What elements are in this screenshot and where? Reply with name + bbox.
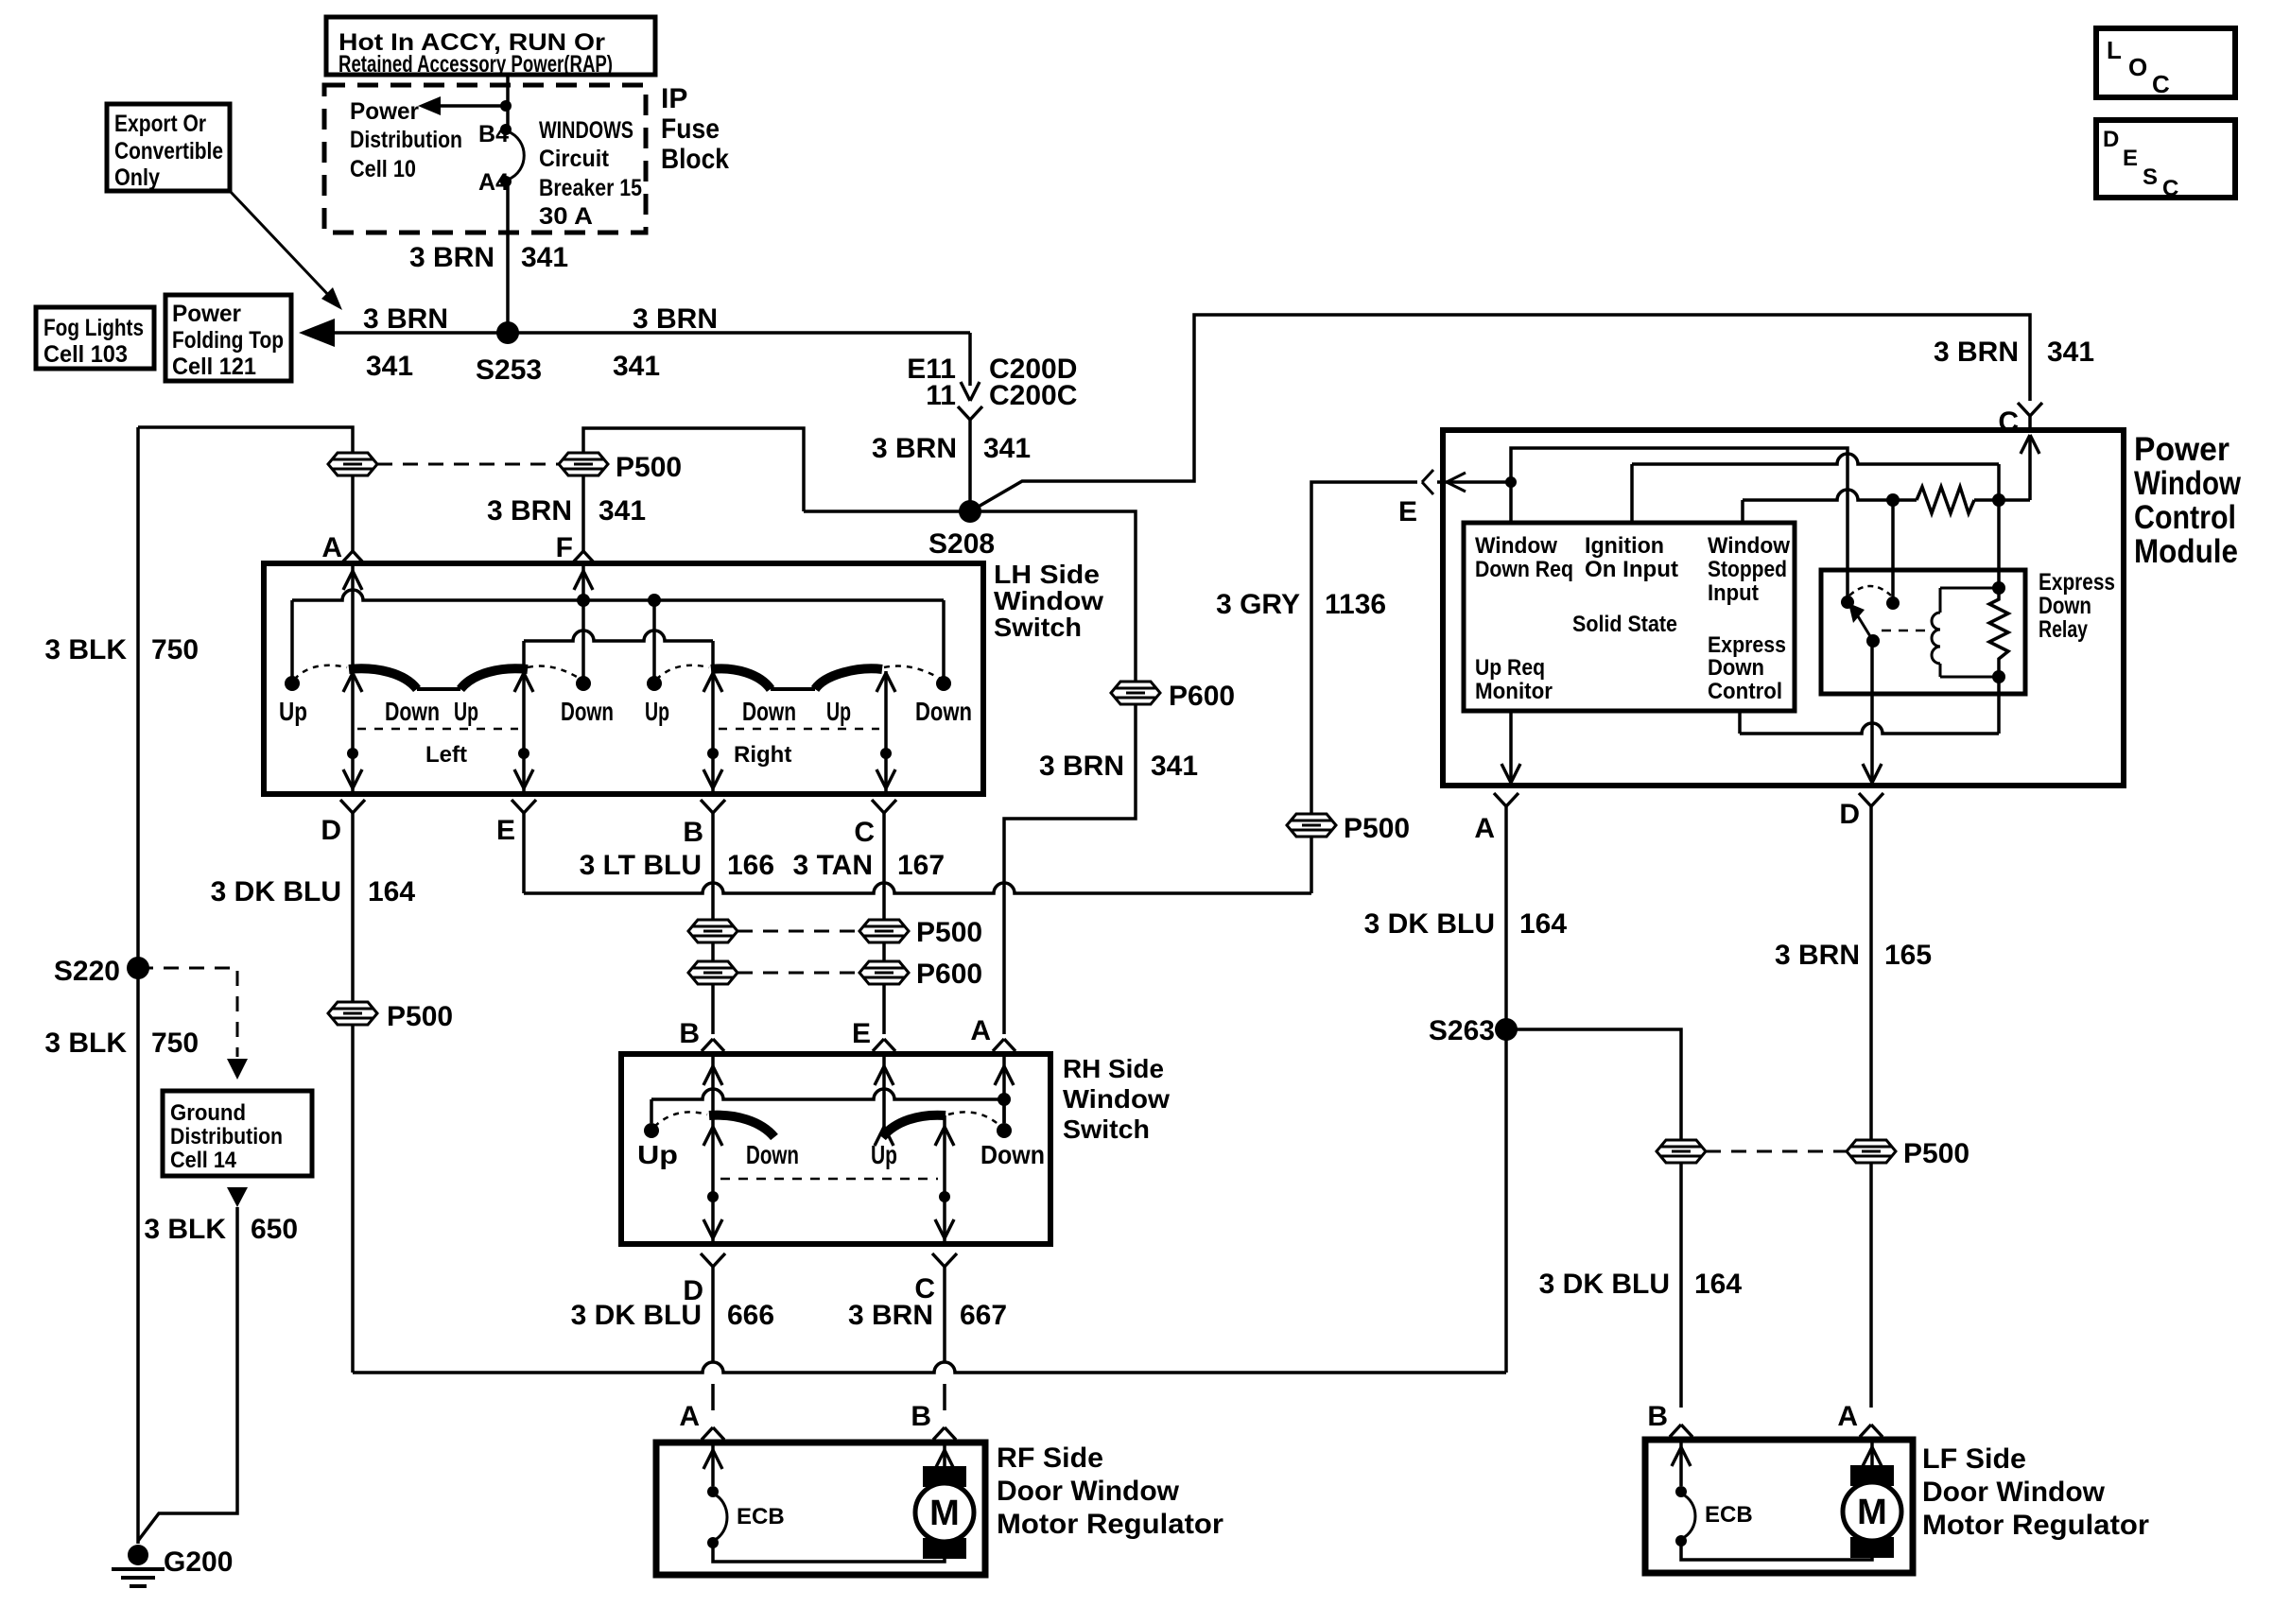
svg-text:Cell 103: Cell 103 bbox=[43, 341, 128, 368]
wire D to RF motor (3 DK BLU 666) bbox=[711, 1267, 715, 1363]
LF motor ECB breaker bbox=[1672, 1447, 1681, 1466]
svg-text:3 BRN: 3 BRN bbox=[848, 1300, 933, 1331]
svg-text:C200C: C200C bbox=[989, 380, 1077, 411]
svg-text:750: 750 bbox=[151, 634, 199, 665]
svg-text:Control: Control bbox=[2134, 499, 2236, 536]
splice S208 bbox=[959, 500, 981, 523]
svg-text:164: 164 bbox=[368, 876, 415, 907]
svg-text:G200: G200 bbox=[164, 1546, 233, 1578]
svg-text:3 BRN: 3 BRN bbox=[1934, 337, 2019, 368]
svg-text:Down: Down bbox=[561, 697, 614, 726]
svg-text:667: 667 bbox=[960, 1300, 1007, 1331]
svg-text:Convertible: Convertible bbox=[114, 138, 223, 164]
relay switch arm bbox=[1855, 612, 1873, 641]
RH switch C connector bbox=[932, 1253, 945, 1267]
svg-text:Breaker 15: Breaker 15 bbox=[539, 175, 642, 201]
wire P600 to RH switch A bbox=[1004, 704, 1136, 1034]
module C input wire bbox=[2028, 437, 2032, 500]
power source label box (Hot In ACCY) bbox=[326, 17, 655, 75]
RH switch right rocker bbox=[882, 1115, 946, 1137]
connector P600 pair mid bbox=[688, 961, 737, 984]
LH switch up contact (right window) bbox=[652, 600, 656, 677]
svg-text:P500: P500 bbox=[1344, 813, 1410, 844]
LH switch C riser bbox=[884, 671, 888, 794]
LH switch F riser bbox=[581, 563, 585, 677]
svg-text:Solid State: Solid State bbox=[1572, 612, 1677, 637]
svg-text:P600: P600 bbox=[916, 959, 982, 990]
svg-text:A: A bbox=[970, 1015, 991, 1046]
svg-text:30 A: 30 A bbox=[539, 203, 593, 230]
svg-text:Up: Up bbox=[279, 697, 307, 726]
wire window stopped input rail bbox=[1741, 500, 1744, 523]
svg-text:164: 164 bbox=[1694, 1269, 1742, 1300]
svg-text:341: 341 bbox=[613, 351, 660, 382]
wire F feed drop bbox=[583, 428, 804, 511]
RH switch up contact bbox=[650, 1099, 653, 1123]
svg-text:Power: Power bbox=[172, 301, 241, 327]
wire S208 rail to F drop bbox=[804, 510, 1134, 513]
connector P600 (BRN to RH switch) bbox=[1111, 682, 1160, 704]
connector half at module C bbox=[2018, 403, 2030, 416]
svg-text:B: B bbox=[1647, 1401, 1668, 1432]
LH switch down contact (right window) bbox=[942, 600, 946, 677]
svg-text:Switch: Switch bbox=[994, 613, 1082, 642]
svg-text:P500: P500 bbox=[616, 452, 682, 483]
svg-text:Relay: Relay bbox=[2039, 616, 2088, 643]
svg-text:3 BRN: 3 BRN bbox=[409, 242, 495, 273]
svg-text:341: 341 bbox=[1151, 751, 1198, 782]
svg-text:B: B bbox=[679, 1018, 700, 1049]
svg-text:Down: Down bbox=[2039, 593, 2091, 619]
svg-text:LH Side: LH Side bbox=[994, 560, 1100, 589]
svg-text:3 BRN: 3 BRN bbox=[1775, 940, 1860, 971]
svg-text:Up: Up bbox=[454, 697, 478, 726]
svg-text:On Input: On Input bbox=[1585, 557, 1678, 582]
svg-text:Monitor: Monitor bbox=[1475, 679, 1553, 704]
svg-text:Fuse: Fuse bbox=[661, 113, 720, 145]
svg-text:S253: S253 bbox=[476, 354, 542, 386]
svg-text:P500: P500 bbox=[1903, 1138, 1969, 1169]
svg-text:P500: P500 bbox=[916, 917, 982, 948]
svg-text:P500: P500 bbox=[387, 1001, 453, 1032]
svg-text:3 DK BLU: 3 DK BLU bbox=[571, 1300, 702, 1331]
svg-text:Cell 14: Cell 14 bbox=[170, 1148, 237, 1173]
wire D (3 DK BLU 164) lower bbox=[351, 1025, 355, 1373]
Export Or Convertible Only note box bbox=[107, 104, 230, 191]
ground G200 bbox=[128, 1545, 148, 1565]
svg-text:Folding Top: Folding Top bbox=[172, 327, 284, 354]
svg-text:3 LT BLU: 3 LT BLU bbox=[580, 850, 702, 881]
svg-text:Express: Express bbox=[1708, 632, 1786, 658]
svg-text:E: E bbox=[1398, 496, 1417, 527]
svg-text:3 DK BLU: 3 DK BLU bbox=[1539, 1269, 1670, 1300]
RH switch gang dashed line bbox=[720, 1178, 938, 1181]
svg-text:Up: Up bbox=[637, 1140, 678, 1169]
connector P500 on LF B wire bbox=[1657, 1140, 1706, 1163]
RH switch dashed contact arcs bbox=[654, 1112, 707, 1127]
svg-text:Up: Up bbox=[645, 697, 669, 726]
IP fuse block dashed box bbox=[324, 85, 646, 233]
LH switch C connector bbox=[872, 800, 884, 813]
svg-text:650: 650 bbox=[251, 1214, 298, 1245]
relay resistor bbox=[1989, 588, 2008, 677]
module A connector bbox=[1494, 793, 1506, 806]
svg-text:3 DK BLU: 3 DK BLU bbox=[1364, 908, 1495, 940]
wire express down control to coil bbox=[1738, 711, 1742, 734]
svg-text:Stopped: Stopped bbox=[1708, 557, 1787, 582]
connector P500 (feed drop) bbox=[559, 453, 608, 475]
svg-text:750: 750 bbox=[151, 1028, 199, 1059]
svg-text:341: 341 bbox=[521, 242, 568, 273]
svg-text:Window: Window bbox=[2134, 465, 2242, 502]
svg-text:Up: Up bbox=[826, 697, 851, 726]
svg-text:Down: Down bbox=[746, 1140, 799, 1169]
svg-text:D: D bbox=[2103, 127, 2119, 152]
svg-text:LF Side: LF Side bbox=[1922, 1443, 2026, 1475]
svg-text:D: D bbox=[1839, 799, 1860, 830]
svg-text:164: 164 bbox=[1519, 908, 1567, 940]
RF motor ECB breaker bbox=[703, 1450, 713, 1469]
wire C to RF motor (3 BRN 667) bbox=[943, 1267, 946, 1363]
relay contact dashed arc bbox=[1849, 586, 1891, 596]
RH Side Window Switch box bbox=[621, 1054, 1050, 1244]
svg-text:Control: Control bbox=[1708, 679, 1782, 704]
svg-text:C: C bbox=[1998, 406, 2019, 438]
Ground Distribution Cell 14 box bbox=[163, 1091, 312, 1176]
svg-text:S263: S263 bbox=[1429, 1015, 1495, 1046]
RF motor M1 bbox=[935, 1450, 945, 1469]
svg-text:341: 341 bbox=[983, 433, 1031, 464]
svg-text:Window: Window bbox=[1063, 1084, 1170, 1114]
svg-text:1136: 1136 bbox=[1325, 589, 1386, 620]
wire B (3 LT BLU 166) bbox=[711, 813, 715, 920]
Power Folding Top Cell 121 box bbox=[165, 295, 291, 381]
svg-text:Down: Down bbox=[915, 697, 972, 726]
RF Side Door Window Motor Regulator box bbox=[656, 1443, 985, 1575]
dashed link S220 to ground distribution bbox=[138, 968, 237, 1057]
splice S263 bbox=[1495, 1018, 1518, 1041]
svg-text:Power: Power bbox=[2134, 431, 2230, 468]
LH switch right window rocker bbox=[711, 668, 771, 689]
ground wire 3 BLK 750 vertical bbox=[136, 427, 140, 1544]
circuit breaker 15 element bbox=[500, 124, 512, 135]
svg-text:IP: IP bbox=[661, 83, 687, 114]
svg-text:S220: S220 bbox=[54, 956, 120, 987]
RH switch left rocker bbox=[709, 1115, 774, 1137]
hot feed rail wire 3 BRN 341 bbox=[321, 331, 970, 335]
svg-text:341: 341 bbox=[2047, 337, 2094, 368]
wire relay contact 2 drop bbox=[1891, 500, 1895, 599]
svg-text:Only: Only bbox=[114, 164, 160, 191]
svg-text:S: S bbox=[2143, 164, 2158, 190]
svg-text:Circuit: Circuit bbox=[539, 146, 610, 172]
connector half at module E bbox=[1422, 470, 1433, 482]
svg-text:Right: Right bbox=[734, 742, 791, 768]
module E input wire bbox=[1437, 480, 1511, 484]
svg-text:3 BRN: 3 BRN bbox=[633, 303, 718, 335]
wire window down req pin bbox=[1509, 482, 1513, 523]
svg-text:341: 341 bbox=[599, 495, 646, 527]
svg-text:Down: Down bbox=[980, 1140, 1045, 1169]
module solid state box bbox=[1464, 523, 1795, 711]
module D connector bbox=[1859, 793, 1871, 806]
svg-text:Retained Accessory Power(RAP): Retained Accessory Power(RAP) bbox=[338, 51, 613, 78]
svg-text:M: M bbox=[1857, 1493, 1887, 1532]
RH switch D connector bbox=[701, 1253, 713, 1267]
svg-text:166: 166 bbox=[727, 850, 774, 881]
relay mechanical dashed link bbox=[1882, 630, 1932, 632]
svg-text:Fog Lights: Fog Lights bbox=[43, 315, 144, 341]
wire fuse feed vertical bbox=[506, 75, 510, 130]
svg-text:3 BRN: 3 BRN bbox=[872, 433, 957, 464]
svg-text:Input: Input bbox=[1708, 580, 1759, 606]
svg-text:Down Req: Down Req bbox=[1475, 557, 1573, 582]
svg-text:341: 341 bbox=[366, 351, 413, 382]
svg-text:3 DK BLU: 3 DK BLU bbox=[211, 876, 341, 907]
wire E to module (3 LT BLU) bbox=[522, 813, 526, 893]
connector P500 pair mid bbox=[688, 920, 737, 942]
express down relay box bbox=[1821, 570, 2025, 694]
LH switch left window rocker bbox=[349, 668, 417, 689]
svg-text:Distribution: Distribution bbox=[350, 127, 462, 153]
RH switch B/D riser bbox=[711, 1054, 715, 1244]
relay coil bbox=[1940, 587, 1999, 590]
svg-text:RF Side: RF Side bbox=[997, 1443, 1103, 1474]
svg-text:C: C bbox=[2162, 176, 2178, 201]
svg-text:E: E bbox=[2123, 146, 2138, 171]
connector P500 (ground drop) bbox=[328, 453, 377, 475]
splice S220 bbox=[127, 957, 149, 979]
splice S253 bbox=[496, 321, 519, 344]
wire E to relay common bbox=[1511, 448, 1848, 598]
svg-text:Left: Left bbox=[425, 742, 467, 768]
LH switch A/D riser bbox=[351, 563, 355, 794]
svg-text:Window: Window bbox=[994, 586, 1103, 615]
LH switch dashed contact arcs bbox=[294, 665, 347, 680]
svg-text:3 BLK: 3 BLK bbox=[44, 1028, 127, 1059]
LH switch E riser bbox=[522, 641, 526, 794]
LOC legend box bbox=[2096, 28, 2235, 97]
connector P500 pair lower right bbox=[1847, 1140, 1896, 1163]
svg-text:S208: S208 bbox=[928, 528, 995, 560]
svg-text:E: E bbox=[496, 815, 515, 846]
wire ignition on input to resistor node bbox=[1630, 464, 1634, 523]
connector P500 on D wire bbox=[328, 1002, 377, 1025]
resistor (module) bbox=[1917, 487, 1974, 513]
svg-text:RH Side: RH Side bbox=[1063, 1054, 1164, 1083]
svg-text:Up Req: Up Req bbox=[1475, 655, 1545, 681]
wire 3 GRY 1136 riser bbox=[1310, 837, 1313, 893]
svg-text:Window: Window bbox=[1475, 533, 1557, 559]
svg-text:C: C bbox=[2152, 70, 2170, 98]
LF motor M2 bbox=[1863, 1447, 1872, 1466]
svg-text:Door Window: Door Window bbox=[1922, 1477, 2106, 1508]
svg-text:Motor Regulator: Motor Regulator bbox=[1922, 1510, 2149, 1541]
RH switch A riser bbox=[1002, 1054, 1006, 1123]
svg-text:666: 666 bbox=[727, 1300, 774, 1331]
svg-text:Express: Express bbox=[2039, 569, 2115, 596]
svg-text:F: F bbox=[556, 532, 573, 563]
svg-text:A: A bbox=[321, 532, 342, 563]
wire bus LH D to S263 bbox=[353, 1362, 1506, 1373]
svg-text:P600: P600 bbox=[1169, 681, 1235, 712]
svg-text:A: A bbox=[679, 1401, 700, 1432]
LH switch up contact (left window) bbox=[290, 600, 294, 677]
LH switch gang dashed lines bbox=[357, 728, 518, 731]
LH switch B connector bbox=[701, 800, 713, 813]
wire D (3 DK BLU 164) upper bbox=[351, 813, 355, 1002]
node branch to power distribution with arrow bbox=[500, 100, 512, 112]
svg-text:3 TAN: 3 TAN bbox=[793, 850, 873, 881]
svg-text:Export Or: Export Or bbox=[114, 111, 206, 137]
wire S263 branch to LF motor bbox=[1506, 1029, 1681, 1140]
svg-text:Down: Down bbox=[742, 697, 796, 726]
svg-text:Distribution: Distribution bbox=[170, 1124, 283, 1149]
svg-text:Cell 10: Cell 10 bbox=[350, 156, 416, 182]
svg-text:3 BRN: 3 BRN bbox=[1039, 751, 1124, 782]
svg-text:11: 11 bbox=[926, 380, 956, 411]
svg-text:B: B bbox=[683, 817, 703, 848]
svg-text:Ignition: Ignition bbox=[1585, 533, 1664, 559]
svg-text:E: E bbox=[852, 1018, 871, 1049]
LH switch B riser bbox=[711, 641, 715, 794]
LH switch down contact (left window) bbox=[576, 676, 591, 691]
wire A drop to LH switch bbox=[351, 475, 355, 551]
RH switch feed bus bbox=[651, 1089, 1004, 1099]
DESC legend box bbox=[2096, 120, 2235, 198]
wire top rail to LH switch A bbox=[138, 427, 353, 453]
relay contact nodes bbox=[1841, 596, 1854, 609]
connector P500 on GRY wire bbox=[1287, 814, 1336, 837]
RH switch C riser bbox=[943, 1115, 946, 1244]
wire C (3 TAN 167) bbox=[882, 813, 886, 920]
svg-text:165: 165 bbox=[1884, 940, 1932, 971]
svg-text:Up: Up bbox=[871, 1140, 897, 1169]
svg-text:3 BRN: 3 BRN bbox=[487, 495, 572, 527]
wire relay arm to D pin bbox=[1870, 641, 1874, 783]
svg-text:A: A bbox=[1474, 813, 1495, 844]
svg-text:Ground: Ground bbox=[170, 1100, 246, 1126]
wire up req monitor to A pin bbox=[1509, 711, 1513, 783]
svg-text:Block: Block bbox=[661, 144, 729, 175]
RH switch E riser bbox=[882, 1054, 886, 1127]
LH switch feed bus bbox=[292, 590, 944, 600]
LH Side Window Switch box bbox=[264, 563, 983, 794]
svg-text:Power: Power bbox=[350, 98, 419, 125]
LH switch E connector bbox=[512, 800, 524, 813]
svg-text:3 GRY: 3 GRY bbox=[1216, 589, 1300, 620]
svg-text:ECB: ECB bbox=[1705, 1502, 1753, 1528]
svg-text:D: D bbox=[321, 815, 341, 846]
dashed pair link P500 top bbox=[377, 463, 559, 466]
RF motor bottom wire bbox=[713, 1543, 945, 1562]
svg-text:O: O bbox=[2128, 53, 2147, 81]
svg-text:L: L bbox=[2107, 36, 2122, 64]
svg-text:M: M bbox=[929, 1494, 960, 1533]
svg-text:167: 167 bbox=[897, 850, 945, 881]
svg-text:ECB: ECB bbox=[737, 1504, 785, 1529]
LF motor bottom wire bbox=[1681, 1541, 1872, 1560]
svg-text:3 BLK: 3 BLK bbox=[144, 1214, 226, 1245]
LH switch D connector bbox=[340, 800, 353, 813]
RH switch down contact bbox=[1002, 1099, 1006, 1123]
svg-text:3 BRN: 3 BRN bbox=[363, 303, 448, 335]
connector C200 E11/11 bbox=[968, 333, 972, 386]
svg-text:Down: Down bbox=[1708, 655, 1764, 681]
wire module D to LF motor (3 BRN 165) bbox=[1869, 806, 1873, 1140]
svg-text:B: B bbox=[911, 1401, 931, 1432]
svg-text:Door Window: Door Window bbox=[997, 1476, 1180, 1507]
Fog Lights Cell 103 box bbox=[36, 307, 154, 369]
wire module A to S263 (3 DK BLU 164) bbox=[1504, 806, 1508, 1373]
LF Side Door Window Motor Regulator box bbox=[1645, 1440, 1913, 1573]
svg-text:Cell 121: Cell 121 bbox=[172, 354, 256, 380]
svg-text:Window: Window bbox=[1708, 533, 1790, 559]
svg-text:Switch: Switch bbox=[1063, 1114, 1150, 1144]
svg-text:3 BLK: 3 BLK bbox=[44, 634, 127, 665]
svg-text:A: A bbox=[1837, 1401, 1858, 1432]
LH switch inner rail bbox=[524, 631, 713, 641]
svg-text:Down: Down bbox=[385, 697, 440, 726]
wire S208 to module C (3 BRN 341) bbox=[970, 315, 2030, 511]
Power Window Control Module box bbox=[1443, 430, 2124, 786]
svg-text:Module: Module bbox=[2134, 533, 2238, 570]
svg-text:WINDOWS: WINDOWS bbox=[539, 117, 633, 144]
wire 3 BLK 650 from ground distribution bbox=[227, 1187, 248, 1207]
wire S208 down to P600 bbox=[1134, 511, 1136, 682]
svg-text:C: C bbox=[854, 817, 875, 848]
svg-text:Motor Regulator: Motor Regulator bbox=[997, 1509, 1223, 1540]
wire resistor node to coil bbox=[1997, 500, 2001, 588]
arrow from export note to wire bbox=[230, 191, 333, 300]
